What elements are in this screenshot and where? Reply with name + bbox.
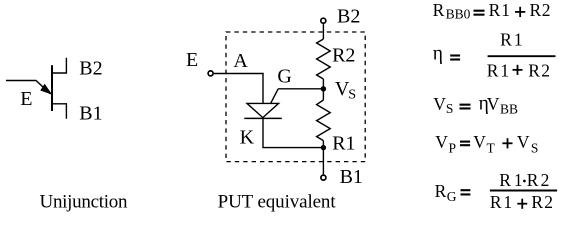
svg-text:B1: B1: [79, 103, 102, 125]
wire: B1 lead: [52, 104, 66, 119]
emitter arrowhead: [41, 85, 51, 94]
base bar: [51, 65, 53, 111]
PUT cathode bar: [244, 117, 281, 119]
svg-text:G: G: [277, 66, 291, 88]
svg-text:V: V: [487, 94, 500, 114]
svg-text:1: 1: [503, 192, 512, 212]
equation: Vs = eta * Vbb: [433, 94, 518, 117]
svg-text:R: R: [500, 29, 512, 49]
terminal B2: [321, 18, 326, 23]
svg-text:1: 1: [501, 0, 510, 20]
svg-text:R: R: [489, 0, 501, 20]
svg-text:R: R: [487, 60, 499, 80]
svg-text:R: R: [433, 0, 445, 20]
fraction bar: [490, 190, 557, 192]
svg-text:S: S: [531, 141, 539, 156]
wire: node to B1 terminal: [322, 148, 324, 175]
svg-text:S: S: [446, 101, 454, 116]
svg-text:A: A: [233, 50, 248, 72]
equation: R_BB0 = R1 + R2: [433, 0, 551, 22]
svg-text:BB0: BB0: [446, 7, 471, 22]
svg-text:1: 1: [514, 170, 523, 190]
svg-text:R: R: [435, 181, 447, 201]
wire: B2 lead: [52, 58, 66, 73]
svg-text:R: R: [490, 192, 502, 212]
wire: R1 to bottom node: [322, 141, 324, 148]
node Vs (junction dot): [321, 86, 326, 91]
svg-text:1: 1: [500, 60, 509, 80]
svg-text:PUT equivalent: PUT equivalent: [218, 191, 337, 212]
resistor R1: [317, 100, 331, 141]
svg-text:R: R: [499, 170, 511, 190]
svg-text:R2: R2: [332, 45, 355, 67]
svg-text:V: V: [517, 132, 530, 152]
svg-text:B2: B2: [79, 58, 102, 80]
fraction bar: [488, 55, 556, 57]
svg-text:B1: B1: [340, 166, 363, 188]
svg-text:BB: BB: [500, 102, 518, 117]
svg-text:R1: R1: [332, 132, 355, 154]
wire: gate to Vs node: [278, 88, 323, 90]
svg-text:V: V: [433, 94, 446, 114]
svg-text:G: G: [447, 189, 457, 204]
dashed equivalent-circuit box: [226, 32, 365, 162]
svg-text:2: 2: [541, 60, 550, 80]
svg-text:B2: B2: [337, 5, 360, 27]
svg-text:T: T: [487, 141, 496, 156]
resistor R2: [317, 39, 331, 79]
terminal E: [208, 71, 213, 76]
wire: emitter lead: [6, 81, 51, 95]
wire: anode A: [214, 74, 263, 104]
equation: Rg = R1*R2 / (R1 + R2): [435, 170, 557, 212]
wire: Vs to R1: [322, 89, 324, 100]
svg-text:R: R: [527, 170, 539, 190]
svg-text:E: E: [20, 88, 32, 110]
PUT gate lead: [271, 89, 279, 104]
svg-text:Unijunction: Unijunction: [40, 192, 129, 213]
svg-text:R: R: [531, 192, 543, 212]
svg-text:R: R: [530, 0, 542, 20]
svg-text:V: V: [473, 132, 486, 152]
terminal B1: [321, 175, 326, 180]
svg-text:R: R: [528, 60, 540, 80]
equation: eta = R1 / (R1 + R2): [433, 29, 556, 80]
equation: Vp = Vt + Vs: [435, 132, 538, 156]
svg-text:E: E: [186, 49, 198, 71]
svg-text:K: K: [240, 126, 255, 148]
svg-text:2: 2: [541, 170, 550, 190]
svg-text:2: 2: [542, 0, 551, 20]
wire: B2 terminal to R2: [322, 24, 324, 39]
svg-text:1: 1: [514, 29, 523, 49]
wire: cathode to bottom rail: [263, 118, 323, 147]
node: cathode junction dot: [321, 145, 326, 150]
svg-text:2: 2: [544, 192, 553, 212]
svg-text:η: η: [433, 43, 443, 64]
svg-text:P: P: [449, 141, 457, 156]
svg-text:S: S: [348, 88, 356, 103]
PUT Q2: anode triangle: [247, 103, 279, 117]
wire: R2 to node Vs: [322, 79, 324, 89]
svg-text:V: V: [435, 132, 448, 152]
transistor Q1: unijunction transistor symbol: [6, 58, 66, 119]
